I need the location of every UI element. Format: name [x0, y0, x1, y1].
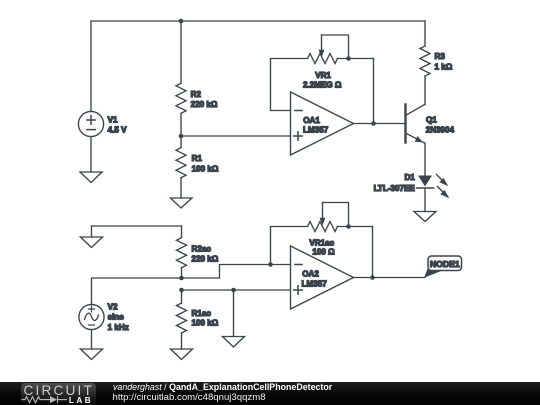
resistor R1 — [176, 136, 186, 198]
label V2 value — [108, 303, 129, 333]
voltage source V2 — [79, 304, 104, 329]
node VR1 wiper/right terminal dot — [346, 56, 351, 61]
svg-text:OA2: OA2 — [302, 270, 319, 279]
node top-rail/R2 junction dot — [179, 19, 184, 24]
label V1 value — [108, 116, 128, 135]
svg-text:D1: D1 — [404, 173, 415, 182]
wire OA1 output to Q1 base — [354, 123, 406, 125]
label R3 value — [435, 52, 453, 71]
wire plus-input rail to OA1 — [181, 135, 291, 137]
wire plus-input rail to OA2 — [182, 289, 291, 291]
label R2ac value — [192, 244, 219, 263]
op-amp OA2 — [291, 246, 354, 309]
op-amp OA1 — [291, 92, 354, 155]
svg-text:R2: R2 — [191, 90, 202, 99]
svg-text:R2ac: R2ac — [192, 244, 212, 253]
svg-text:1 kΩ: 1 kΩ — [435, 62, 453, 71]
resistor R1ac — [177, 290, 187, 349]
wire top rail — [91, 20, 425, 22]
node OA2 output feedback dot — [370, 275, 375, 280]
svg-text:NODE1: NODE1 — [430, 259, 460, 269]
label OA1 name — [303, 116, 329, 135]
wire V1 bottom lead — [90, 137, 92, 172]
svg-text:4.5 V: 4.5 V — [108, 126, 128, 135]
svg-text:V1: V1 — [108, 116, 118, 125]
transistor Q1 — [406, 105, 425, 144]
label VR1 value — [303, 71, 342, 89]
ground left of R2ac — [81, 237, 103, 248]
wire minus-input step from junction — [182, 265, 291, 279]
svg-text:Q1: Q1 — [426, 116, 437, 125]
svg-text:R1: R1 — [192, 154, 203, 163]
label R2 value — [191, 90, 218, 109]
node flag NODE1 — [424, 256, 462, 278]
label OA2 name — [302, 270, 328, 289]
wire V1 top lead — [90, 21, 92, 112]
svg-text:LM357: LM357 — [303, 126, 329, 135]
wire Q1 collector to R3 — [424, 104, 427, 106]
resistor R2ac — [177, 226, 187, 278]
wire AC input ground rail — [92, 225, 182, 227]
svg-text:sine: sine — [108, 313, 125, 322]
logo CircuitLab — [21, 383, 96, 405]
label R1ac value — [192, 309, 219, 328]
label VR1ac value — [309, 239, 335, 257]
wire feedback up to VR1 — [373, 59, 375, 124]
ground below D1 — [414, 212, 436, 222]
node ground branch dot — [231, 288, 236, 293]
svg-text:100 kΩ: 100 kΩ — [192, 164, 219, 173]
svg-text:220 kΩ: 220 kΩ — [192, 255, 219, 264]
svg-text:LTL-307EE: LTL-307EE — [374, 184, 416, 193]
svg-text:OA1: OA1 — [303, 116, 320, 125]
ground below R1 — [171, 198, 193, 208]
svg-text:220 kΩ: 220 kΩ — [191, 100, 218, 109]
wire feedback up to VR1ac — [372, 227, 374, 278]
svg-text:LM357: LM357 — [302, 279, 328, 288]
node VR1ac left leg dot — [268, 262, 273, 267]
ground below plus rail — [223, 337, 245, 348]
node plus rail junction dot — [179, 288, 184, 293]
svg-text:100 kΩ: 100 kΩ — [192, 319, 219, 328]
footer bar — [0, 382, 540, 405]
svg-text:VR1ac: VR1ac — [309, 239, 334, 248]
potentiometer VR1 — [271, 35, 374, 111]
label Q1 name — [426, 116, 455, 135]
svg-text:R1ac: R1ac — [192, 309, 212, 318]
voltage source V1 — [78, 111, 103, 136]
node R2/R1 junction dot — [179, 134, 184, 139]
wire OA2 output to NODE1 — [354, 277, 426, 279]
LED D1 — [417, 175, 450, 212]
wire V2 to junction — [92, 278, 182, 305]
svg-text:2.2MEG Ω: 2.2MEG Ω — [303, 81, 342, 90]
svg-text:100 Ω: 100 Ω — [312, 248, 335, 257]
node OA1 output feedback dot — [371, 121, 376, 126]
svg-text:2N3904: 2N3904 — [426, 125, 455, 134]
svg-text:VR1: VR1 — [315, 71, 331, 80]
potentiometer VR1ac — [271, 203, 373, 265]
wire ground stem left — [91, 226, 93, 237]
ground below R1ac — [171, 349, 193, 360]
wire V2 bottom lead — [91, 330, 93, 349]
svg-text:1 kHz: 1 kHz — [108, 323, 129, 332]
node R2ac/V2 junction dot — [179, 276, 184, 281]
label R1 value — [192, 154, 219, 173]
resistor R2 — [176, 21, 186, 136]
wire Q1 emitter to D1 — [424, 143, 427, 176]
label D1 name — [374, 173, 416, 193]
wire ground stem mid — [233, 290, 235, 337]
ground below V2 — [81, 349, 103, 360]
node VR1ac wiper/right terminal dot — [346, 224, 351, 229]
footer text — [113, 383, 332, 393]
svg-text:V2: V2 — [108, 303, 118, 312]
ground below V1 — [80, 172, 102, 183]
resistor R3 — [420, 21, 430, 105]
svg-text:R3: R3 — [435, 52, 446, 61]
